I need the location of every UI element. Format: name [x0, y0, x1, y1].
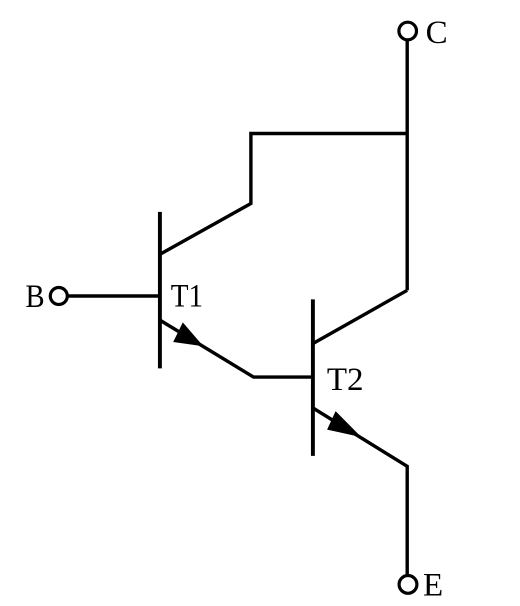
svg-text:E: E — [423, 568, 443, 604]
svg-text:T1: T1 — [171, 278, 203, 314]
svg-text:T2: T2 — [327, 362, 364, 398]
svg-text:B: B — [26, 279, 45, 315]
svg-text:C: C — [426, 15, 448, 51]
